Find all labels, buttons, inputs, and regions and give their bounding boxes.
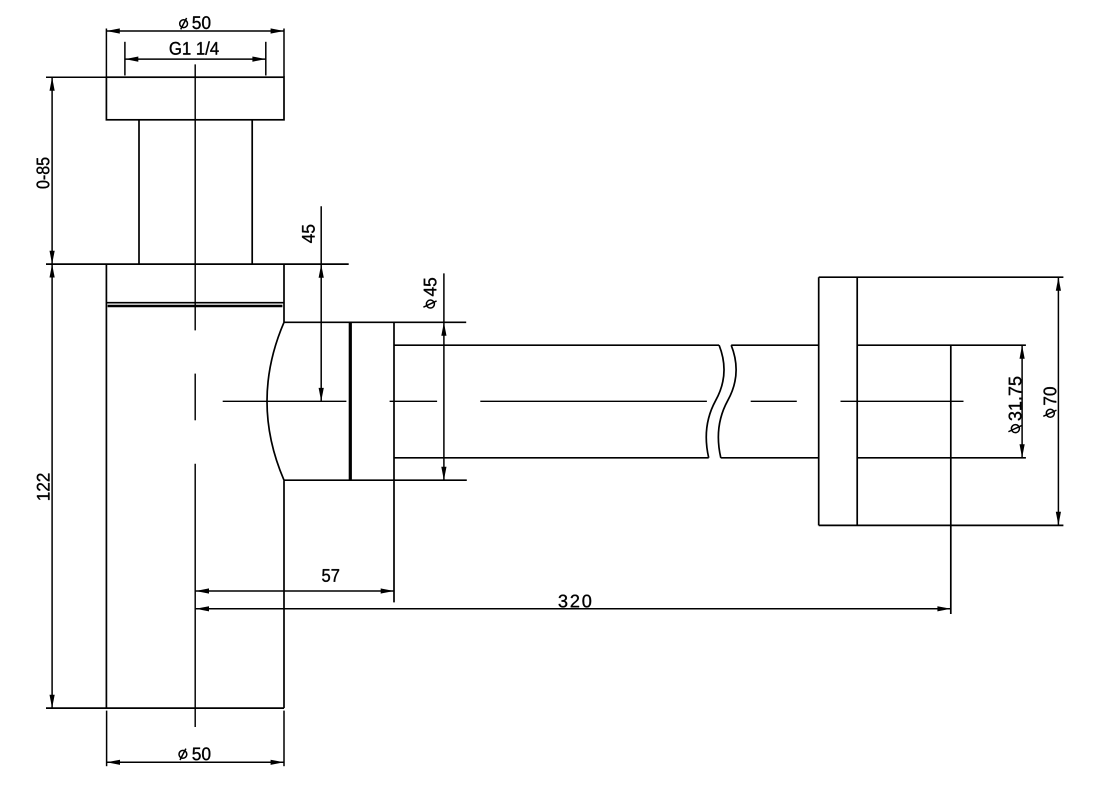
dimension phi70 <box>1043 277 1061 525</box>
dimension phi31.75 <box>1008 345 1024 458</box>
body/outlet intersection arc <box>267 322 284 480</box>
body vertical centerline <box>194 64 196 727</box>
dimension 57 <box>196 569 395 593</box>
dimension phi45 <box>423 273 446 480</box>
outlet collar bottom <box>284 479 467 481</box>
dimension 45 <box>302 206 324 401</box>
collar end edge / 57 extension <box>393 322 395 602</box>
wall flange <box>819 277 1064 525</box>
outlet pipe top edge <box>394 344 1026 346</box>
dimension 320 <box>196 595 951 612</box>
top flange (inlet nut) <box>106 77 284 120</box>
inlet tail pipe <box>139 120 252 264</box>
dimension G1 1/4 <box>125 41 266 75</box>
body top edge line <box>46 263 349 265</box>
dimension phi50 top <box>106 16 284 77</box>
outlet horizontal centerline <box>223 400 964 402</box>
outlet pipe bottom edge <box>394 457 1026 459</box>
dimension 0-85 <box>36 77 106 264</box>
dimension phi50 bottom <box>107 711 284 767</box>
body upper nut <box>106 264 284 322</box>
thick seal line <box>108 305 283 308</box>
body cup <box>46 264 284 708</box>
outlet collar top <box>284 321 466 323</box>
compression joint thick line <box>349 322 352 480</box>
pipe break squiggle <box>706 345 736 458</box>
dimension 122 <box>37 264 55 708</box>
pipe end edge / 320 extension <box>950 345 952 614</box>
